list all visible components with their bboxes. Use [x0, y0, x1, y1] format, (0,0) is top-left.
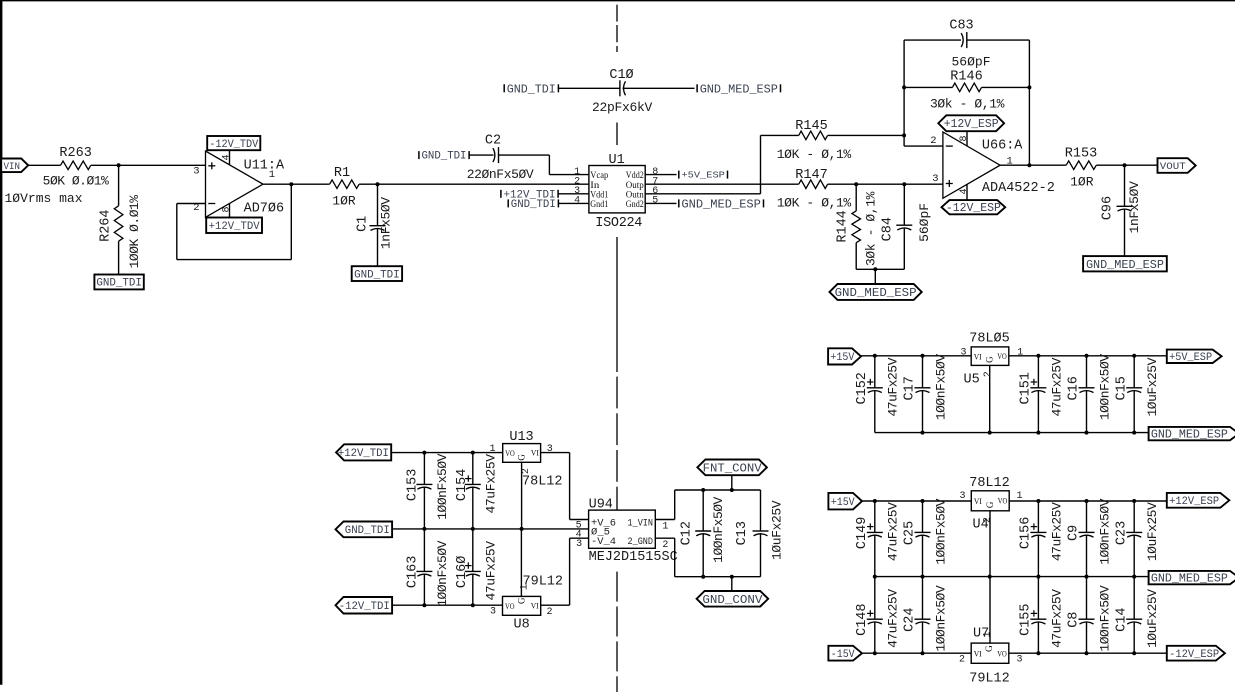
wire cap column 78L05 x=1086.5 [1086, 356, 1088, 388]
svg-text:VI: VI [974, 351, 982, 361]
svg-text:4: 4 [574, 196, 580, 207]
wire to R145 [761, 134, 799, 136]
IC U8 79L12 body [503, 596, 541, 615]
pin 5 wire U1 to GND_MED_ESP [645, 202, 676, 204]
resistor R1 [330, 180, 360, 189]
junction nodes 78L12 top rail [873, 499, 877, 503]
svg-text:C148: C148 [855, 603, 870, 635]
svg-text:C1: C1 [356, 216, 371, 232]
svg-text:C84: C84 [881, 217, 896, 241]
power flag +12V_ESP [938, 115, 1004, 131]
wire C96 to GND_MED_ESP [1124, 209, 1126, 257]
wire C153/C163 column [423, 453, 425, 485]
wire cap column upper x=1086.5 [1086, 501, 1088, 532]
svg-text:C96: C96 [1101, 196, 1116, 220]
pin 2 stub U5 (G) [989, 365, 991, 432]
svg-text:U11:A: U11:A [244, 159, 285, 174]
svg-text:C2: C2 [485, 134, 501, 149]
svg-text:47uFx25V: 47uFx25V [1049, 357, 1064, 416]
svg-text:2: 2 [662, 540, 668, 551]
wire cap column 78L05 x=1134.2 [1133, 356, 1135, 388]
pin 1 wire U94 [655, 519, 674, 521]
svg-text:2_GND: 2_GND [628, 537, 654, 548]
svg-text:1ØuFx25V: 1ØuFx25V [1145, 589, 1160, 648]
wire R147 to U66 + input [828, 183, 943, 185]
svg-text:5ØK Ø.Ø1%: 5ØK Ø.Ø1% [43, 174, 109, 189]
svg-text:2: 2 [521, 468, 532, 474]
svg-text:1ØuFx25V: 1ØuFx25V [770, 500, 785, 560]
wire GND_TDI to C2 [469, 154, 493, 156]
port +15V (78L12) [828, 493, 862, 510]
wire conv bottom rail [675, 576, 761, 578]
wire cap column lower x=874.8 [874, 577, 876, 620]
junction node output/feedback [1027, 163, 1031, 167]
capacitor C149 [867, 531, 883, 533]
wire cap column 78L05 x=922.5 [922, 356, 924, 388]
junction nodes 78L05 gnd rail [921, 431, 925, 435]
wire GND_MED_ESP rail (78L05) [875, 432, 1149, 434]
svg-text:1ØK - Ø,1%: 1ØK - Ø,1% [777, 147, 852, 162]
wire +12V_TDI rail [391, 452, 503, 454]
svg-text:1ØR: 1ØR [1070, 174, 1094, 189]
svg-text:R144: R144 [836, 210, 851, 242]
svg-text:VO: VO [505, 601, 515, 611]
junction node GND stem [873, 267, 877, 271]
resistor R264 [114, 206, 123, 241]
svg-text:C15: C15 [1114, 376, 1129, 400]
svg-text:1ØØK Ø.Ø1%: 1ØØK Ø.Ø1% [127, 195, 142, 269]
svg-text:2: 2 [930, 135, 936, 147]
capacitor C96 [1117, 205, 1133, 207]
svg-text:GND_TDI: GND_TDI [345, 525, 390, 537]
power pin 4 stub U11 [229, 150, 231, 165]
svg-text:GND_TDI: GND_TDI [511, 199, 556, 211]
junction nodes C153 column [422, 451, 426, 455]
wire cap column upper x=922.5 [922, 501, 924, 532]
wire cap column upper x=1134.2 [1133, 501, 1135, 532]
wire C12 column [702, 490, 704, 531]
pin 1 stub U7 (G) [989, 577, 991, 644]
svg-text:3: 3 [960, 347, 966, 358]
svg-text:1ØK - Ø,1%: 1ØK - Ø,1% [777, 196, 852, 211]
svg-text:+12V_ESP: +12V_ESP [944, 118, 999, 131]
capacitor C151 [1030, 387, 1046, 389]
svg-text:47uFx25V: 47uFx25V [1049, 502, 1064, 561]
svg-text:C12: C12 [680, 521, 695, 545]
svg-text:VI: VI [974, 496, 982, 506]
power pin 8 stub U11 [229, 204, 231, 218]
port +12V_TDI [336, 444, 391, 460]
capacitor C153 [416, 483, 432, 485]
junction node GND_CONV stem [730, 575, 734, 579]
svg-text:VI: VI [974, 649, 982, 659]
junction nodes C154 column [471, 451, 475, 455]
op-amp U66:A ADA4522-2 [943, 132, 1000, 198]
svg-text:2: 2 [547, 607, 553, 618]
svg-text:47uFx25V: 47uFx25V [886, 502, 901, 561]
wire -12V_TDI rail [392, 604, 502, 606]
svg-text:1nFx5ØV: 1nFx5ØV [378, 197, 393, 249]
svg-text:GND_TDI: GND_TDI [96, 278, 142, 290]
IC U94 MEJ2D1515SC body [589, 510, 656, 548]
svg-text:AD7Ø6: AD7Ø6 [244, 202, 285, 217]
svg-text:3: 3 [490, 607, 496, 618]
resistor R146 [952, 83, 981, 92]
svg-text:VI: VI [531, 448, 539, 458]
svg-text:GND_MED_ESP: GND_MED_ESP [1151, 573, 1228, 586]
svg-text:22ØnFx5ØV: 22ØnFx5ØV [467, 167, 534, 182]
svg-text:47uFx25V: 47uFx25V [886, 589, 901, 648]
capacitor C156 [1030, 531, 1046, 533]
svg-text:-12V_ESP: -12V_ESP [946, 202, 1001, 215]
capacitor C25 [915, 531, 931, 533]
wire GND_TDI to C10 [558, 87, 620, 89]
ground flag GND_CONV [697, 591, 769, 607]
wire junction down to C1 [377, 184, 379, 226]
junction node U13/U8 G [520, 527, 524, 531]
svg-text:3: 3 [576, 539, 582, 550]
wire R1 to ISO224 In [359, 183, 589, 185]
wire down to U66 inverting input [903, 135, 905, 146]
svg-text:3: 3 [193, 165, 199, 177]
schematic sheet top border [0, 0, 1235, 2]
svg-text:VOUT: VOUT [1160, 161, 1186, 173]
svg-text:C9: C9 [1067, 525, 1082, 541]
svg-text:1ØØnFx5ØV: 1ØØnFx5ØV [1097, 498, 1112, 564]
wire C83 row right [967, 39, 1030, 41]
wire feedback down [176, 204, 178, 260]
capacitor C148 [867, 618, 883, 620]
svg-text:C152: C152 [855, 372, 870, 404]
pin 2 stub U13 (G) [521, 462, 523, 529]
port -15V (79L12) [828, 646, 862, 661]
ground flag GND_TDI (below R264) [94, 275, 143, 290]
capacitor C24 [915, 618, 931, 620]
svg-text:C16Ø: C16Ø [455, 556, 470, 588]
capacitor C83 [966, 32, 968, 48]
pin 8 wire U1 to +5V_ESP [645, 174, 676, 176]
junction nodes C12 [701, 488, 705, 492]
junction node R145/feedback [902, 133, 906, 137]
svg-text:C153: C153 [406, 469, 421, 501]
wire junction down to R264 [118, 165, 120, 206]
svg-text:+12V_ESP: +12V_ESP [1169, 496, 1219, 508]
capacitor C1 [370, 225, 386, 227]
svg-text:78LØ5: 78LØ5 [969, 332, 1010, 347]
ground flag GND_TDI (below C1) [352, 266, 402, 281]
wire U94 pin1 up to conv rail [674, 490, 676, 520]
wire GND_MED_ESP mid rail [875, 576, 1149, 578]
wire C13 column [760, 490, 762, 531]
svg-text:C25: C25 [903, 521, 918, 545]
svg-text:1ØØnFx5ØV: 1ØØnFx5ØV [711, 496, 726, 562]
svg-text:1ØVrms max: 1ØVrms max [5, 191, 83, 206]
svg-text:78L12: 78L12 [969, 476, 1010, 491]
junction node R146 right [1027, 85, 1031, 89]
svg-text:1_VIN: 1_VIN [628, 518, 654, 529]
capacitor C152 [867, 387, 883, 389]
resistor R145 [799, 131, 828, 140]
capacitor C15 [1126, 387, 1142, 389]
svg-text:1ØuFx25V: 1ØuFx25V [1145, 502, 1160, 561]
wire C83 row left [904, 39, 961, 41]
power flag -12V_TDV [207, 136, 260, 150]
wire GND_CONV stem [731, 577, 733, 591]
svg-text:+15V: +15V [831, 497, 855, 509]
wire cap column 78L05 x=874.8 [874, 356, 876, 388]
IC U4 78L12 body [971, 491, 1009, 511]
port VOUT [1158, 158, 1196, 173]
wire feedback right rail [1028, 40, 1030, 165]
svg-text:-12V_ESP: -12V_ESP [1169, 649, 1219, 661]
svg-text:-15V: -15V [831, 649, 855, 661]
port +5V_ESP [1167, 350, 1222, 363]
svg-text:47uFx25V: 47uFx25V [886, 357, 901, 416]
port +12V_ESP [1167, 493, 1230, 508]
wire +15V rail to +12V_ESP [862, 500, 971, 502]
net label GND_MED_ESP (pin5) [678, 199, 680, 207]
wire C10 to GND_MED_ESP [623, 87, 695, 89]
svg-text:C17: C17 [903, 376, 918, 400]
svg-text:2: 2 [959, 654, 965, 665]
wire GND_TDI rail [392, 528, 588, 530]
wire bottom R144-C84 [856, 268, 904, 270]
IC U5 78L05 body [971, 347, 1009, 366]
svg-text:Vdd2: Vdd2 [626, 171, 644, 181]
wire cap column upper x=874.8 [874, 501, 876, 532]
port +15V (78L05) [828, 348, 861, 364]
svg-text:1: 1 [1017, 491, 1023, 502]
svg-text:5: 5 [652, 196, 658, 207]
capacitor C23 [1126, 531, 1142, 533]
svg-text:R263: R263 [59, 146, 91, 161]
svg-text:3: 3 [959, 491, 965, 502]
svg-text:G: G [985, 645, 995, 652]
wire C1 to GND_TDI [377, 228, 379, 266]
wire R145 to feedback rail [828, 134, 905, 136]
svg-text:Vcap: Vcap [590, 171, 608, 181]
svg-text:1: 1 [982, 631, 993, 637]
capacitor C12 [695, 530, 711, 532]
net label GND_MED_ESP (at C10) [696, 84, 698, 92]
junction node feedback/output [289, 182, 293, 186]
IC U7 79L12 body [971, 643, 1009, 663]
svg-text:C154: C154 [455, 469, 470, 501]
svg-text:C83: C83 [949, 19, 973, 34]
svg-text:ISO224: ISO224 [595, 216, 642, 231]
svg-text:C8: C8 [1067, 612, 1082, 628]
svg-text:R1: R1 [334, 166, 350, 181]
svg-text:U66:A: U66:A [982, 138, 1023, 153]
wire Outn up to R145 row [760, 135, 762, 193]
wire VIN to R263 [28, 164, 60, 166]
svg-text:1: 1 [662, 521, 668, 532]
svg-text:+5V_ESP: +5V_ESP [1169, 352, 1212, 364]
wire C2 to ISO224 Vcap [499, 154, 550, 156]
svg-text:GND_TDI: GND_TDI [507, 82, 556, 96]
wire FNT_CONV stem [731, 475, 733, 490]
port VIN [1, 159, 28, 173]
capacitor C84 [896, 224, 912, 226]
capacitor C160 [465, 570, 481, 572]
capacitor C16 [1079, 387, 1095, 389]
wire cap column upper x=1038.4 [1037, 501, 1039, 532]
svg-text:2: 2 [983, 371, 994, 377]
svg-text:VO: VO [997, 648, 1007, 658]
svg-text:1: 1 [1017, 347, 1023, 358]
power flag FNT_CONV [697, 460, 767, 476]
svg-text:3: 3 [932, 173, 938, 185]
pin 3 wire U13 VI [541, 452, 570, 454]
svg-text:+12V_TDI: +12V_TDI [338, 448, 389, 460]
pin 7 wire U1 Outp to R147 [645, 183, 799, 185]
wire R263 to opamp + input [91, 164, 206, 166]
wire C84 column [903, 184, 905, 225]
svg-text:47uFx25V: 47uFx25V [1049, 589, 1064, 648]
svg-text:1ØuFx25V: 1ØuFx25V [1145, 357, 1160, 416]
svg-text:GND_MED_ESP: GND_MED_ESP [1086, 258, 1164, 272]
svg-text:3Øk - Ø,1%: 3Øk - Ø,1% [863, 191, 878, 266]
pin 2 stub U4 (G) [989, 511, 991, 577]
junction node R144 top [854, 182, 858, 186]
svg-text:Gnd1: Gnd1 [590, 200, 608, 210]
pin 3 wire U94 [570, 537, 589, 539]
capacitor C17 [915, 387, 931, 389]
svg-text:U94: U94 [589, 497, 613, 512]
svg-text:Outp: Outp [626, 181, 644, 191]
wire U11 output [263, 183, 330, 185]
net label GND_TDI to U1 pin4 [507, 199, 509, 207]
svg-text:8: 8 [959, 135, 970, 141]
svg-text:G: G [985, 356, 995, 363]
resistor R153 [1066, 161, 1096, 170]
svg-text:-12V_TDV: -12V_TDV [209, 139, 258, 151]
svg-text:78L12: 78L12 [522, 474, 563, 489]
isolation barrier dashed line [616, 5, 618, 22]
ground flag GND_MED_ESP (78L05 rail) [1149, 427, 1235, 440]
wire cap column lower x=922.5 [922, 577, 924, 620]
wire feedback left rail [903, 40, 905, 135]
svg-text:U1: U1 [609, 153, 625, 168]
svg-text:C24: C24 [903, 608, 918, 632]
svg-text:R145: R145 [795, 119, 827, 134]
svg-text:1ØØnFx5ØV: 1ØØnFx5ØV [435, 453, 450, 519]
svg-text:GND_MED_ESP: GND_MED_ESP [700, 82, 778, 96]
svg-text:R147: R147 [795, 168, 827, 183]
svg-text:VO: VO [998, 496, 1008, 506]
op-amp U11:A AD706 [206, 151, 264, 217]
svg-text:79L12: 79L12 [523, 575, 564, 590]
IC U13 78L12 body [503, 444, 541, 463]
junction node FNT_CONV stem [730, 488, 734, 492]
svg-text:G: G [985, 501, 995, 508]
net label +12V_TDI to U1 pin3 [500, 190, 502, 198]
svg-text:MEJ2D1515SC: MEJ2D1515SC [589, 550, 678, 565]
svg-text:1ØR: 1ØR [332, 194, 356, 209]
wire U8 VI up to U94 pin3 [569, 538, 571, 605]
svg-text:C23: C23 [1114, 521, 1129, 545]
svg-text:1ØØnFx5ØV: 1ØØnFx5ØV [933, 354, 948, 420]
svg-text:Gnd2: Gnd2 [626, 200, 644, 210]
svg-text:1ØØnFx5ØV: 1ØØnFx5ØV [1097, 585, 1112, 651]
svg-text:79L12: 79L12 [969, 672, 1010, 687]
wire cap column lower x=1038.4 [1037, 577, 1039, 620]
junction node C84 top [902, 182, 906, 186]
junction node C96 [1123, 163, 1127, 167]
svg-text:2: 2 [982, 517, 993, 523]
svg-text:1ØØnFx5ØV: 1ØØnFx5ØV [933, 498, 948, 564]
junction node R263/R264 [117, 163, 121, 167]
svg-text:Vdd1: Vdd1 [590, 190, 608, 200]
wire U94 pin2 down to conv gnd rail [674, 538, 676, 577]
svg-text:56ØpF: 56ØpF [917, 203, 932, 242]
svg-text:In: In [590, 181, 599, 191]
svg-text:VO: VO [997, 351, 1007, 361]
wire R144 to bottom [855, 243, 857, 270]
svg-text:GND_CONV: GND_CONV [702, 593, 763, 607]
svg-text:U8: U8 [513, 618, 529, 633]
power flag +12V_TDV [206, 218, 262, 234]
svg-text:R264: R264 [98, 209, 113, 241]
svg-text:G: G [516, 597, 526, 604]
resistor R144 [852, 211, 861, 243]
svg-text:56ØpF: 56ØpF [951, 54, 990, 69]
svg-text:3: 3 [547, 444, 553, 455]
svg-text:U5: U5 [964, 373, 980, 388]
capacitor C2 [498, 147, 500, 163]
svg-text:1nFx5ØV: 1nFx5ØV [1127, 181, 1142, 233]
ground flag GND_MED_ESP (below R144/C84) [830, 284, 922, 300]
wire R146 row right [982, 86, 1030, 88]
svg-text:+15V: +15V [830, 352, 854, 364]
svg-text:3Øk - Ø,1%: 3Øk - Ø,1% [930, 97, 1005, 112]
power pin 4 stub U66 [966, 184, 968, 200]
svg-text:-V_4: -V_4 [591, 537, 616, 548]
ground flag GND_MED_ESP (below C96) [1083, 256, 1167, 271]
svg-text:GND_MED_ESP: GND_MED_ESP [681, 197, 761, 211]
svg-text:47uFx25V: 47uFx25V [483, 454, 498, 514]
svg-text:C155: C155 [1019, 603, 1034, 635]
wire U13 VI down to U94 pin5 [569, 453, 571, 520]
svg-text:GND_TDI: GND_TDI [422, 151, 467, 163]
capacitor C10 [619, 80, 621, 96]
wire R144 column [855, 184, 857, 211]
schematic sheet left border [0, 0, 2, 685]
net label GND_TDI (at C10) [503, 84, 505, 92]
net label GND_TDI (at C2) [418, 151, 420, 159]
svg-text:C1Ø: C1Ø [609, 68, 633, 83]
wire cap column lower x=1086.5 [1086, 577, 1088, 620]
resistor R147 [799, 180, 828, 189]
capacitor C8 [1079, 618, 1095, 620]
svg-text:-12V_TDI: -12V_TDI [339, 601, 390, 613]
wire -15V rail to -12V_ESP [862, 652, 971, 654]
wire C84 to bottom [903, 227, 905, 269]
junction nodes 79L12 bottom rail [873, 651, 877, 655]
svg-text:C149: C149 [855, 517, 870, 549]
svg-text:1: 1 [269, 169, 275, 181]
svg-text:GND_MED_ESP: GND_MED_ESP [1151, 429, 1228, 442]
svg-text:FNT_CONV: FNT_CONV [703, 461, 763, 475]
pin 5 wire U94 [570, 519, 589, 521]
svg-text:8: 8 [221, 206, 232, 212]
wire R264 to GND_TDI [118, 241, 120, 274]
svg-text:C16: C16 [1067, 376, 1082, 400]
IC U1 ISO224 body [589, 166, 645, 213]
svg-text:U13: U13 [509, 430, 533, 445]
port -12V_ESP [1167, 646, 1225, 661]
svg-text:C13: C13 [735, 521, 750, 545]
